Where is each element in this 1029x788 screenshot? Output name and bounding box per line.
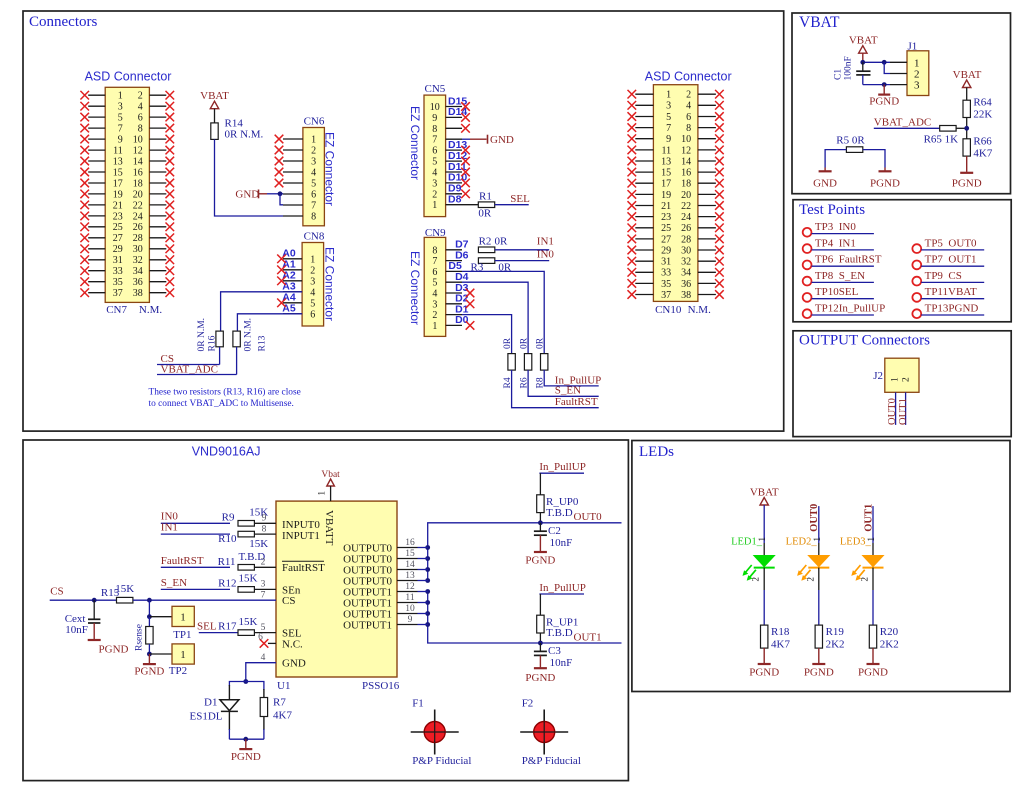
svg-text:32: 32 (133, 255, 143, 266)
svg-text:34: 34 (681, 268, 691, 279)
pin name OUTPUT0 pin 15 (343, 549, 417, 565)
resistor R18 (761, 625, 791, 650)
svg-text:VBAT: VBAT (799, 14, 840, 31)
svg-text:27: 27 (661, 234, 671, 245)
svg-text:A5: A5 (282, 303, 296, 315)
test point TP10 SEL (803, 286, 874, 302)
svg-text:17: 17 (113, 178, 123, 189)
svg-text:11: 11 (661, 145, 671, 156)
svg-text:P&P Fiducial: P&P Fiducial (412, 755, 471, 767)
svg-text:3: 3 (914, 80, 920, 92)
resistor R19 (815, 625, 844, 650)
svg-text:PSSO16: PSSO16 (362, 680, 400, 692)
wire R5 left to GND (825, 150, 846, 168)
power arrow Vbat U1 pin VBATT (317, 479, 335, 501)
no-connect X CN8 A2 (277, 277, 286, 286)
svg-text:R20: R20 (880, 626, 899, 638)
svg-text:12: 12 (405, 582, 415, 592)
svg-text:R13: R13 (258, 335, 268, 351)
pin name OUTPUT0 pin 13 (343, 571, 417, 587)
fiducial F1 (411, 698, 472, 768)
svg-text:TP1: TP1 (173, 629, 191, 641)
capacitor Cext (65, 600, 101, 639)
junction dot GND net top (243, 679, 248, 684)
svg-text:FaultRST: FaultRST (161, 555, 204, 567)
svg-text:LEDs: LEDs (639, 444, 674, 460)
svg-text:36: 36 (133, 277, 143, 288)
svg-text:VBATT: VBATT (323, 510, 335, 546)
wire and net label In_PullUP (544, 370, 601, 386)
net label OUT1 rotated (863, 504, 874, 543)
resistor R10 (218, 525, 276, 551)
no-connect X CN5 pin 6 (461, 146, 470, 155)
junction dot CN6 pin6 (278, 191, 283, 196)
net label VBAT_ADC wire (874, 117, 940, 129)
pin name OUTPUT0 pin 14 (343, 560, 417, 576)
svg-text:4K7: 4K7 (273, 710, 292, 722)
wire and net label FaultRST (512, 370, 599, 408)
wire stub OUTPUT1 pin 12 (418, 591, 428, 593)
svg-text:J2: J2 (873, 370, 883, 382)
svg-text:ASD Connector: ASD Connector (645, 70, 732, 84)
junction dot OUTPUT1 pin 11 (425, 600, 430, 605)
svg-text:Test Points: Test Points (799, 202, 865, 218)
svg-text:13: 13 (113, 156, 123, 167)
svg-text:R65 1K: R65 1K (924, 133, 959, 145)
svg-text:1: 1 (317, 491, 327, 496)
svg-text:INPUT1: INPUT1 (282, 530, 320, 542)
junction dot OUTPUT1 pin 9 (425, 622, 430, 627)
junction dot OUT0 (538, 520, 543, 525)
svg-text:2: 2 (805, 577, 815, 582)
svg-text:N.C.: N.C. (282, 638, 303, 650)
svg-text:18: 18 (133, 178, 143, 189)
svg-text:C2: C2 (548, 525, 561, 537)
net label VBAT_ADC left (157, 347, 237, 376)
svg-text:VBAT_ADC: VBAT_ADC (874, 117, 931, 129)
pin wire J2 OUT0 (895, 392, 897, 425)
power port PGND under R20 (858, 648, 888, 678)
svg-text:TP7 OUT1: TP7 OUT1 (925, 254, 977, 266)
wire stub OUTPUT0 pin 13 (418, 580, 428, 582)
resistor Rsense (135, 617, 154, 651)
svg-text:4: 4 (432, 289, 437, 300)
svg-text:6: 6 (258, 632, 263, 642)
wire D5 to R8 (462, 271, 544, 353)
svg-text:4: 4 (138, 102, 143, 113)
svg-text:33: 33 (113, 266, 123, 277)
svg-text:ASD Connector: ASD Connector (85, 70, 172, 84)
net label IN0 wire (161, 511, 230, 524)
no-connect X CN5 pin 5 (461, 157, 470, 166)
svg-text:2: 2 (310, 265, 315, 276)
svg-text:0R: 0R (495, 235, 509, 247)
junction dot J1 pin2 branch (882, 60, 887, 65)
svg-text:GND: GND (813, 178, 837, 190)
no-connect X CN9 D2 (466, 300, 475, 309)
svg-text:37: 37 (661, 290, 671, 301)
svg-text:6: 6 (686, 112, 691, 123)
svg-text:12: 12 (681, 145, 691, 156)
svg-text:IN1: IN1 (161, 521, 178, 533)
svg-text:4: 4 (686, 101, 691, 112)
svg-text:EZ Connector: EZ Connector (408, 106, 422, 180)
svg-text:R18: R18 (771, 626, 790, 638)
svg-text:2: 2 (138, 91, 143, 102)
connector CN7 ASD Connector (80, 87, 174, 302)
svg-text:4: 4 (432, 168, 437, 179)
svg-text:TP4 IN1: TP4 IN1 (815, 237, 856, 249)
svg-text:100nF: 100nF (843, 56, 853, 80)
svg-text:19: 19 (113, 189, 123, 200)
svg-text:7: 7 (666, 123, 671, 134)
fiducial F2 (520, 698, 581, 768)
svg-text:TP6 FaultRST: TP6 FaultRST (815, 254, 882, 266)
svg-text:F1: F1 (412, 698, 424, 710)
wire branch to J1 pin2 (884, 62, 890, 73)
junction dot Rsense top (147, 598, 152, 603)
resistor R11 (218, 551, 276, 570)
svg-text:CN8: CN8 (304, 231, 325, 243)
svg-text:2: 2 (860, 577, 870, 582)
svg-text:IN0: IN0 (537, 249, 555, 261)
pin name OUTPUT1 pin 12 (343, 582, 417, 598)
svg-text:T.B.D: T.B.D (546, 507, 573, 519)
svg-text:TP3 IN0: TP3 IN0 (815, 221, 856, 233)
svg-text:16: 16 (405, 538, 415, 548)
svg-text:SEL: SEL (510, 193, 530, 205)
svg-text:7: 7 (261, 591, 266, 601)
svg-text:PGND: PGND (525, 555, 555, 567)
pin name OUTPUT1 pin 11 (343, 593, 417, 609)
resistor R9 (222, 507, 276, 527)
resistor R4 (503, 337, 515, 388)
svg-text:7: 7 (311, 201, 316, 212)
svg-text:11: 11 (113, 146, 123, 157)
power port PGND under D1 R7 (231, 739, 261, 763)
svg-text:R2: R2 (479, 235, 492, 247)
resistor R5 (836, 135, 865, 153)
svg-text:8: 8 (262, 525, 267, 535)
LED LED3 (840, 537, 884, 591)
svg-text:15: 15 (113, 167, 123, 178)
svg-text:R19: R19 (826, 626, 845, 638)
resistor R13 (233, 318, 268, 352)
svg-text:D0: D0 (455, 314, 469, 326)
svg-text:23: 23 (113, 211, 123, 222)
LED LED1 (731, 537, 775, 591)
svg-text:6: 6 (432, 267, 437, 278)
svg-text:9: 9 (118, 135, 123, 146)
svg-text:38: 38 (681, 290, 691, 301)
svg-text:OUT1: OUT1 (898, 398, 909, 425)
svg-text:24: 24 (681, 212, 691, 223)
svg-text:34: 34 (133, 266, 143, 277)
wire to diode D1 (229, 682, 245, 687)
diode D1 ES1DL (190, 697, 239, 723)
connector CN10 ASD Connector (628, 85, 724, 302)
svg-text:0R N.M.: 0R N.M. (225, 129, 264, 141)
wire A5 to R13 (237, 314, 302, 331)
note text resistors R13 R16 (149, 387, 301, 409)
svg-text:FaultRST: FaultRST (282, 562, 325, 574)
no-connect X CN5 pin 9 (461, 113, 470, 122)
capacitor C1 (834, 56, 871, 84)
svg-text:6: 6 (311, 190, 316, 201)
section frame LEDs (632, 441, 1010, 692)
svg-text:7: 7 (432, 256, 437, 267)
wire R5 right to PGND (863, 150, 885, 168)
svg-text:5: 5 (432, 157, 437, 168)
svg-text:OUT0: OUT0 (887, 398, 898, 425)
svg-text:3: 3 (261, 580, 266, 590)
svg-text:Rsense: Rsense (135, 624, 145, 651)
no-connect X CN6 pin 3 (275, 157, 284, 166)
svg-text:PGND: PGND (804, 666, 834, 678)
svg-text:33: 33 (661, 268, 671, 279)
svg-text:6: 6 (310, 309, 315, 320)
svg-text:1: 1 (914, 57, 920, 69)
wire LED to R20 (872, 590, 874, 625)
svg-text:PGND: PGND (99, 643, 129, 655)
svg-text:16: 16 (133, 167, 143, 178)
wire stub OUTPUT0 pin 15 (418, 558, 428, 560)
test point TP7 OUT1 (912, 254, 984, 270)
wire stub OUTPUT0 pin 16 (418, 547, 428, 549)
net label CS wire (50, 586, 117, 601)
wire A3 to R16 (221, 292, 303, 331)
svg-text:TP10SEL: TP10SEL (815, 286, 859, 298)
wire R3 to IN0 (495, 249, 555, 261)
svg-text:29: 29 (113, 244, 123, 255)
svg-text:R1: R1 (479, 191, 492, 203)
svg-text:5: 5 (432, 278, 437, 289)
svg-text:N.M.: N.M. (688, 304, 711, 316)
junction dot TP1 (147, 614, 152, 619)
svg-text:6: 6 (138, 113, 143, 124)
section frame VND9016AJ (23, 440, 628, 781)
resistor R3 (471, 258, 512, 274)
section frame Connectors (23, 11, 784, 431)
svg-text:R64: R64 (973, 96, 992, 108)
svg-text:25: 25 (661, 223, 671, 234)
junction dot OUTPUT0 pin 13 (425, 578, 430, 583)
svg-text:12: 12 (133, 146, 143, 157)
svg-text:GND: GND (235, 189, 259, 201)
svg-text:N.M.: N.M. (139, 304, 162, 316)
svg-text:0R: 0R (536, 337, 546, 349)
svg-text:1: 1 (432, 200, 437, 211)
junction dot PGND J1 (882, 82, 887, 87)
junction dot OUTPUT0 pin 14 (425, 567, 430, 572)
svg-text:36: 36 (681, 279, 691, 290)
svg-text:U1: U1 (277, 680, 290, 692)
svg-text:37: 37 (113, 288, 123, 299)
svg-text:15: 15 (405, 549, 415, 559)
svg-text:PGND: PGND (952, 178, 982, 190)
power arrow VBAT at R64 (963, 80, 971, 100)
svg-text:2: 2 (686, 90, 691, 101)
pin name OUTPUT1 pin 10 (343, 604, 417, 620)
wire stub OUTPUT1 pin 9 (418, 624, 428, 626)
svg-text:10nF: 10nF (550, 657, 573, 669)
no-connect X CN5 pin 8 (461, 124, 470, 133)
svg-text:2K2: 2K2 (826, 639, 845, 651)
svg-text:TP11VBAT: TP11VBAT (925, 286, 977, 298)
wire LED to R18 (763, 590, 765, 625)
svg-text:5: 5 (666, 112, 671, 123)
svg-text:22: 22 (133, 200, 143, 211)
pin name OUTPUT1 pin 9 (343, 615, 417, 631)
svg-text:35: 35 (661, 279, 671, 290)
svg-text:10: 10 (133, 135, 143, 146)
no-connect X CN9 D3 (466, 289, 475, 298)
power port PGND under Rsense (134, 654, 164, 678)
svg-text:3: 3 (310, 276, 315, 287)
svg-text:VBAT: VBAT (849, 35, 878, 47)
svg-text:31: 31 (661, 257, 671, 268)
svg-text:R12: R12 (218, 577, 236, 589)
no-connect X CN5 pin 10 (461, 102, 470, 111)
resistor R65 (924, 126, 967, 146)
resistor R2 (478, 235, 508, 252)
svg-text:28: 28 (133, 233, 143, 244)
pin name FaultRST with overline (282, 561, 325, 574)
svg-text:10: 10 (681, 134, 691, 145)
svg-text:to connect VBAT_ADC to Multise: to connect VBAT_ADC to Multisense. (149, 399, 294, 409)
svg-text:CN9: CN9 (425, 227, 446, 239)
svg-text:OUTPUT1: OUTPUT1 (343, 619, 392, 631)
svg-text:CS: CS (282, 595, 295, 607)
test point TP8 S_EN (803, 270, 874, 286)
power port PGND under R18 (749, 648, 779, 678)
svg-text:13: 13 (661, 156, 671, 167)
power port GND at CN5 pin7 (462, 134, 514, 146)
pin wire TP1 (149, 616, 172, 618)
wire Rsense bottom (148, 644, 150, 654)
svg-text:30: 30 (681, 245, 691, 256)
svg-text:4K7: 4K7 (973, 147, 992, 159)
resistor R15 (101, 583, 134, 603)
net label In_PullUP at R_UP1 (539, 582, 585, 615)
svg-text:R9: R9 (222, 512, 235, 524)
svg-text:R17: R17 (218, 621, 237, 633)
svg-text:F2: F2 (522, 698, 534, 710)
wire LED to R19 (818, 590, 820, 625)
svg-text:TP8 S_EN: TP8 S_EN (815, 270, 865, 282)
svg-text:14: 14 (405, 560, 415, 570)
svg-text:5: 5 (118, 113, 123, 124)
svg-text:22: 22 (681, 201, 691, 212)
svg-text:VBAT_ADC: VBAT_ADC (161, 364, 218, 376)
power port PGND under Cext (88, 640, 129, 655)
svg-text:38: 38 (133, 288, 143, 299)
resistor R6 (520, 337, 532, 388)
test point TP5 OUT0 (912, 237, 984, 253)
wire to resistor R7 (246, 682, 264, 691)
svg-text:OUTPUT Connectors: OUTPUT Connectors (799, 333, 930, 349)
test point TP6 FaultRST (803, 254, 882, 270)
power port GND at CN6 (235, 189, 283, 201)
svg-text:IN1: IN1 (537, 236, 554, 248)
svg-text:R16: R16 (208, 335, 218, 351)
wire stub OUTPUT1 pin 11 (418, 602, 428, 604)
svg-text:2: 2 (432, 189, 437, 200)
svg-text:PGND: PGND (869, 96, 899, 108)
svg-text:3: 3 (311, 157, 316, 168)
wire stub OUTPUT0 pin 14 (418, 569, 428, 571)
power arrow VBAT at C1 (859, 46, 867, 63)
power port PGND under R66 (952, 156, 982, 189)
resistor R12 (218, 573, 276, 593)
svg-text:PGND: PGND (870, 178, 900, 190)
power port PGND under R19 (804, 648, 834, 678)
wire U1 GND pin4 down (246, 653, 276, 682)
svg-text:EZ Connector: EZ Connector (408, 251, 422, 325)
svg-text:25: 25 (113, 222, 123, 233)
svg-text:23: 23 (661, 212, 671, 223)
svg-text:4: 4 (261, 653, 266, 663)
svg-text:11: 11 (405, 593, 414, 603)
wire D1 down (228, 711, 230, 730)
no-connect X CN8 A4 (277, 299, 286, 308)
svg-text:5: 5 (311, 179, 316, 190)
svg-text:1: 1 (311, 135, 316, 146)
connector CN8 EZ Connector (283, 243, 324, 327)
svg-text:28: 28 (681, 234, 691, 245)
svg-text:ES1DL: ES1DL (190, 711, 223, 723)
power port GND under R5 (813, 168, 837, 190)
svg-text:10: 10 (405, 604, 415, 614)
net label CS left (157, 347, 220, 365)
svg-text:8: 8 (686, 123, 691, 134)
svg-text:5: 5 (261, 623, 266, 633)
svg-text:2: 2 (432, 310, 437, 321)
svg-text:GND: GND (282, 658, 306, 670)
svg-text:26: 26 (133, 222, 143, 233)
svg-text:9: 9 (432, 113, 437, 124)
junction dot OUTPUT1 pin 12 (425, 589, 430, 594)
section frame VBAT (792, 13, 1011, 194)
resistor R20 (869, 625, 898, 650)
svg-text:TP12In_PullUP: TP12In_PullUP (815, 303, 885, 315)
svg-text:31: 31 (113, 255, 123, 266)
svg-text:8: 8 (138, 124, 143, 135)
svg-text:1: 1 (757, 537, 767, 542)
pin wire J2 OUT1 (905, 392, 907, 425)
svg-text:10nF: 10nF (65, 624, 88, 636)
junction dot OUTPUT1 pin 10 (425, 611, 430, 616)
svg-text:32: 32 (681, 257, 691, 268)
svg-text:30: 30 (133, 244, 143, 255)
svg-text:15: 15 (661, 168, 671, 179)
svg-text:27: 27 (113, 233, 123, 244)
wire R15 to U1 CS pin7 (133, 591, 276, 601)
svg-text:0R: 0R (520, 337, 530, 349)
svg-text:4: 4 (310, 287, 315, 298)
svg-text:24: 24 (133, 211, 143, 222)
wire R7 down (263, 717, 265, 731)
svg-text:0R: 0R (478, 207, 492, 219)
svg-text:2: 2 (751, 577, 761, 582)
svg-text:1: 1 (891, 377, 901, 382)
net label SEL wire U1 (197, 621, 238, 633)
svg-text:0R: 0R (503, 337, 513, 349)
svg-text:10: 10 (430, 102, 440, 113)
test pad TP1 (172, 606, 194, 641)
svg-text:PGND: PGND (858, 666, 888, 678)
svg-text:TP9 CS: TP9 CS (925, 270, 962, 282)
